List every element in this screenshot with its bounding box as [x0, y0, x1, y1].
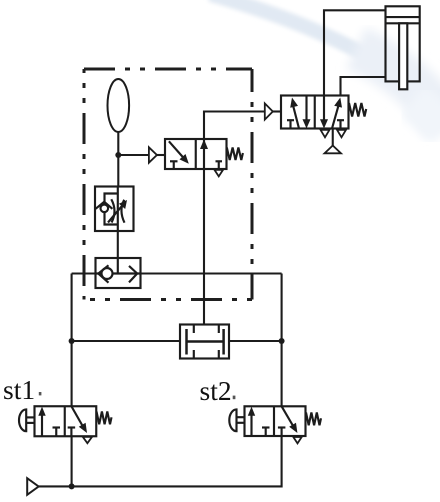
wire st1 supply down: [71, 436, 73, 486]
exhaust triangle port3: [337, 130, 346, 138]
return spring: [227, 148, 243, 161]
st1 right blocked port: [68, 426, 76, 428]
wire two-pressure output to 3/2 valve: [203, 169, 205, 325]
st2 left blocked port: [262, 426, 270, 428]
flow control valve FC1: [95, 187, 134, 232]
enclosure dash-dot frame: [84, 69, 252, 300]
junction node D (bottom rail / st1): [69, 483, 75, 489]
wire left vertical: [71, 274, 73, 407]
st2 pushbutton: [229, 409, 236, 431]
label st2 tick: [233, 396, 236, 400]
left cell blocked port: [287, 119, 294, 121]
left cell diagonal arrow: [169, 141, 185, 159]
st1 pushbutton: [19, 409, 26, 431]
wire reservoir to flow valve: [117, 132, 119, 188]
st1 diagonal arrow: [71, 406, 83, 427]
st1 exhaust triangle: [83, 437, 92, 443]
st1 left blocked port: [53, 426, 61, 428]
5/2 valve V1: [265, 96, 366, 154]
left cell exhaust arrow down: [305, 96, 307, 122]
wire 5/2 pilot stub: [273, 110, 281, 112]
limit valve st1: [19, 406, 111, 443]
wire two-pressure right input: [229, 340, 282, 342]
3/2 pilot valve V2: [149, 139, 243, 176]
wire main horizontal line: [72, 272, 282, 274]
wire two-pressure left input: [72, 340, 180, 342]
wire bottom supply rail: [39, 436, 282, 486]
svg-text:st1: st1: [3, 374, 35, 405]
reservoir oval: [108, 79, 130, 132]
right cell blocked port: [337, 119, 344, 121]
wire right vertical: [281, 274, 283, 407]
st2 right blocked port: [278, 426, 286, 428]
limit valve st2: [229, 406, 321, 443]
left cell blocked port: [170, 160, 178, 162]
exhaust triangle: [215, 170, 224, 177]
st2 return spring: [306, 413, 321, 426]
cylinder A: [386, 6, 420, 89]
st2 diagonal arrow: [282, 406, 294, 427]
right cell blocked port: [216, 160, 223, 162]
wire pilot branch to 3/2 valve: [118, 154, 149, 156]
return spring: [349, 103, 366, 117]
right cell flow arrow up: [332, 106, 339, 129]
wire 5/2 port2 to cylinder bottom: [341, 77, 386, 96]
pilot triangle: [265, 103, 273, 119]
st2 flow arrow up: [250, 414, 252, 436]
wire 3/2 pilot stub: [157, 154, 165, 156]
check valve CV1: [96, 258, 141, 288]
two-pressure valve TP1: [180, 325, 229, 359]
wire flow valve to check valve: [117, 231, 119, 274]
exhaust triangle port5: [321, 130, 330, 138]
right cell flow arrow up: [203, 139, 205, 169]
st1 flow arrow up: [41, 414, 43, 436]
wire 5/2 port4 to cylinder top: [324, 10, 386, 95]
wire 5/2 supply down: [332, 129, 334, 146]
compressed air source: [27, 478, 38, 495]
junction node B (left wire / two-pressure): [69, 338, 75, 344]
right cell exhaust arrow down: [323, 96, 325, 122]
junction node A (reservoir/pilot): [115, 152, 121, 158]
label st1 tick: [39, 392, 42, 395]
wire 3/2 output to 5/2 pilot: [204, 112, 265, 140]
st1 return spring: [97, 412, 112, 425]
left cell diagonal arrow up: [293, 106, 299, 129]
supply source triangle: [325, 146, 342, 154]
st2 exhaust triangle: [293, 437, 301, 443]
svg-text:st2: st2: [200, 375, 232, 406]
background swoosh: [210, 0, 440, 132]
junction node C (right wire / two-pressure): [279, 338, 285, 344]
pilot triangle: [149, 147, 157, 162]
